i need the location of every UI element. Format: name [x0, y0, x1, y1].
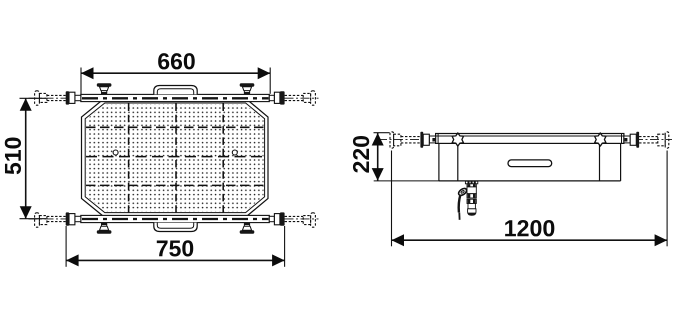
dimension 510 tick bottom [20, 218, 47, 220]
dimension 660 line [81, 72, 270, 74]
top tube inner dark dashes [82, 97, 269, 99]
bottom tube stub right [269, 216, 274, 221]
dimension 1200 line [392, 239, 668, 241]
dimension 1200 extension left [391, 151, 393, 247]
dimension 750 text [157, 240, 193, 256]
valve lever rod [458, 213, 460, 220]
side body left wall inner [457, 143, 459, 181]
top phantom roller right [285, 91, 316, 105]
bottom phantom roller right [285, 213, 316, 227]
top T-screw right [240, 83, 255, 94]
bottom tube centerline [29, 218, 319, 220]
side body bottom extension tick [374, 180, 440, 182]
dimension 220 text [353, 136, 369, 173]
valve body [465, 181, 477, 215]
top collar left [69, 92, 75, 103]
bottom flange left [66, 212, 70, 225]
dashed panel line vertical 2 [175, 104, 177, 213]
dimension 510 text [5, 138, 21, 175]
side centerline [378, 138, 672, 140]
dashed panel line horizontal bottom [86, 184, 264, 186]
top phantom roller left [35, 91, 66, 105]
dimension 220 arrow bottom [372, 168, 384, 181]
bottom phantom roller left [35, 213, 66, 227]
dashed panel line horizontal top [86, 126, 264, 128]
platform octagon outer [82, 100, 269, 217]
dimension 1200 arrow left [392, 234, 405, 246]
side collar left [423, 134, 429, 145]
dashed panel line vertical 1 [128, 104, 130, 213]
bottom T-screw right [240, 223, 255, 234]
top flange left [66, 91, 70, 104]
bottom collar right [274, 214, 280, 225]
dimension 1200 arrow right [655, 234, 668, 246]
bottom flange right [280, 212, 285, 225]
side rail [436, 134, 624, 144]
hole eyelet left [113, 150, 118, 155]
top T-screw left [97, 83, 112, 94]
dimension 1200 extension right [666, 151, 668, 247]
dimension 750 arrow left [66, 254, 79, 266]
dashed panel line horizontal middle [86, 156, 264, 158]
platform octagon inner [85, 103, 264, 213]
perforation dot grid [86, 104, 263, 211]
side axle bolt right [624, 138, 627, 142]
side flange left [420, 132, 423, 148]
dimension 660 arrow left [81, 67, 94, 79]
valve lever arm [459, 195, 461, 213]
side slot [508, 160, 552, 167]
dimension 660 extension left [80, 68, 82, 95]
side phantom roller left [390, 132, 420, 148]
valve lever ring [457, 187, 467, 197]
side body left wall outer [438, 143, 440, 181]
dimension 660 arrow right [258, 67, 271, 79]
top flange right [280, 91, 285, 104]
dimension 510 tick top [20, 97, 47, 99]
dimension 1200 text [505, 220, 554, 236]
dimension 750 extension right [284, 226, 286, 267]
side body bottom [439, 180, 621, 182]
bottom tube stub left [75, 216, 81, 221]
dimension 660 extension right [269, 68, 271, 94]
bottom tube [81, 215, 269, 222]
top collar right [274, 92, 280, 103]
dimension 750 arrow right [272, 254, 285, 266]
side body right wall inner [599, 143, 601, 181]
top tube stub left [75, 95, 81, 100]
side rail inner line [436, 135, 624, 137]
dimension 510 arrow top [20, 98, 32, 111]
top tube [81, 94, 269, 101]
dimension 220 line [377, 133, 379, 181]
dimension 660 text [158, 53, 195, 69]
bottom tube inner dark dashes [82, 218, 269, 220]
dimension 220 arrow top [372, 133, 384, 146]
bottom handle [154, 223, 197, 232]
dimension 220 tick top [374, 132, 390, 134]
side axle bolt left [432, 138, 435, 142]
top tube centerline [29, 97, 319, 99]
dimension 510 arrow bottom [20, 206, 32, 219]
dimension 750 extension left [65, 226, 67, 267]
side axle stub left [429, 136, 435, 143]
side flange right [636, 132, 639, 148]
top tube stub right [269, 95, 274, 100]
side phantom roller right [639, 132, 669, 148]
side axle stub right [624, 136, 630, 143]
bottom collar left [69, 214, 75, 225]
side rail end cap left [437, 134, 439, 144]
hole eyelet right [232, 150, 237, 155]
bottom T-screw left [97, 223, 112, 234]
side collar right [630, 134, 636, 145]
star knob right [595, 133, 606, 146]
dashed panel line vertical 3 [222, 104, 224, 213]
dimension 510 line [25, 98, 27, 218]
star knob left [452, 133, 463, 146]
side body right wall outer [620, 143, 622, 181]
dimension 750 line [66, 259, 285, 261]
side rail end cap right [621, 134, 623, 144]
top handle [154, 86, 197, 95]
